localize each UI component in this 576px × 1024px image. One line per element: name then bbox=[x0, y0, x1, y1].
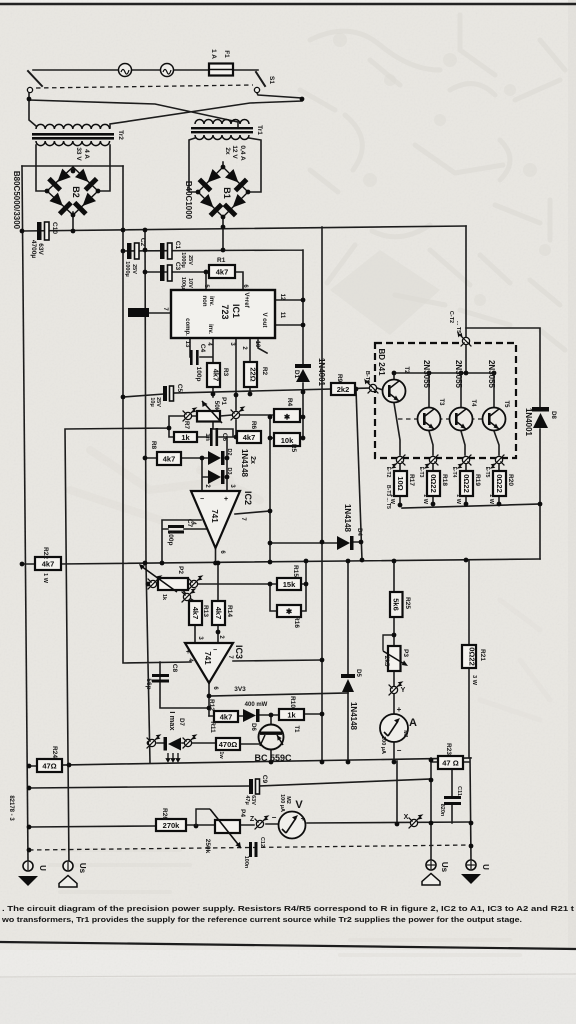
svg-text:T4: T4 bbox=[470, 399, 476, 407]
svg-text:4k7: 4k7 bbox=[212, 369, 221, 382]
svg-text:10µ: 10µ bbox=[149, 397, 155, 406]
svg-text:R10: R10 bbox=[289, 696, 296, 708]
svg-text:D7: D7 bbox=[178, 718, 184, 726]
svg-text:T5: T5 bbox=[503, 400, 509, 408]
svg-text:C10: C10 bbox=[51, 222, 58, 234]
svg-text:T1: T1 bbox=[293, 725, 299, 733]
svg-text:1 W: 1 W bbox=[455, 494, 461, 505]
svg-text:+: + bbox=[301, 814, 306, 823]
svg-text:50k: 50k bbox=[213, 401, 220, 412]
svg-text:25V: 25V bbox=[187, 255, 193, 265]
svg-text:inv.: inv. bbox=[208, 296, 214, 306]
svg-text:+: + bbox=[224, 496, 228, 503]
svg-text:4 A: 4 A bbox=[83, 149, 90, 159]
svg-text:inv.: inv. bbox=[207, 324, 213, 334]
svg-text:D2: D2 bbox=[226, 448, 232, 455]
svg-text:4700µ: 4700µ bbox=[30, 240, 37, 258]
svg-text:10: 10 bbox=[254, 341, 260, 348]
svg-text:100 µA: 100 µA bbox=[380, 736, 386, 754]
svg-text:82178 - 3: 82178 - 3 bbox=[8, 795, 14, 821]
svg-text:U: U bbox=[38, 865, 47, 871]
svg-text:E-T5: E-T5 bbox=[484, 467, 490, 478]
svg-text:33 V: 33 V bbox=[75, 147, 82, 161]
svg-text:741: 741 bbox=[210, 509, 219, 523]
svg-text:D5: D5 bbox=[355, 669, 361, 677]
svg-text:V+ref: V+ref bbox=[243, 292, 249, 308]
svg-text:11: 11 bbox=[279, 312, 285, 319]
svg-text:−: − bbox=[213, 647, 217, 654]
svg-text:1 W: 1 W bbox=[422, 494, 428, 505]
svg-text:✱: ✱ bbox=[286, 607, 293, 616]
svg-text:Tr1: Tr1 bbox=[256, 125, 263, 135]
svg-text:R16: R16 bbox=[293, 616, 300, 628]
svg-text:400 mW: 400 mW bbox=[245, 702, 268, 708]
svg-text:F1: F1 bbox=[223, 50, 230, 58]
svg-text:1N4001: 1N4001 bbox=[317, 358, 326, 387]
svg-text:1 W: 1 W bbox=[389, 494, 395, 505]
svg-text:4k7: 4k7 bbox=[163, 455, 176, 464]
svg-text:wo transformers, Tr1 provides: wo transformers, Tr1 provides the supply… bbox=[1, 915, 522, 924]
svg-text:IC2: IC2 bbox=[243, 491, 253, 505]
svg-text:0,4 A: 0,4 A bbox=[239, 145, 246, 161]
svg-text:5k6: 5k6 bbox=[392, 598, 401, 611]
svg-text:1N4148: 1N4148 bbox=[240, 449, 249, 478]
svg-text:R7: R7 bbox=[183, 421, 190, 430]
svg-text:C5: C5 bbox=[176, 384, 183, 393]
svg-text:I max: I max bbox=[168, 711, 177, 731]
svg-text:R6: R6 bbox=[250, 421, 257, 430]
svg-text:4k7: 4k7 bbox=[214, 607, 223, 620]
svg-text:47 Ω: 47 Ω bbox=[442, 759, 458, 768]
svg-text:R13: R13 bbox=[202, 605, 209, 617]
svg-text:C-T2: C-T2 bbox=[448, 311, 454, 323]
svg-text:R8: R8 bbox=[150, 441, 157, 450]
svg-text:R18: R18 bbox=[441, 474, 448, 486]
svg-text:470Ω: 470Ω bbox=[219, 740, 238, 749]
svg-text:1000µ: 1000µ bbox=[180, 252, 186, 267]
svg-text:820n: 820n bbox=[439, 804, 445, 817]
svg-text:Z: Z bbox=[250, 816, 255, 823]
svg-text:R12: R12 bbox=[208, 699, 215, 711]
svg-text:C11: C11 bbox=[456, 786, 462, 796]
svg-text:non: non bbox=[201, 296, 207, 307]
svg-text:P1: P1 bbox=[220, 397, 227, 405]
svg-text:R21: R21 bbox=[479, 649, 486, 661]
svg-text:100p: 100p bbox=[167, 531, 174, 546]
svg-text:1N4001: 1N4001 bbox=[524, 408, 533, 437]
svg-text:E-T2: E-T2 bbox=[385, 467, 391, 478]
svg-text:R2: R2 bbox=[261, 367, 268, 376]
svg-text:3 W: 3 W bbox=[471, 675, 477, 686]
svg-text:47Ω: 47Ω bbox=[42, 762, 56, 771]
svg-text:47µ: 47µ bbox=[244, 795, 250, 804]
svg-text:R22: R22 bbox=[42, 547, 49, 559]
svg-text:10V: 10V bbox=[187, 278, 193, 288]
svg-text:1N4148: 1N4148 bbox=[349, 702, 358, 731]
svg-text:2N3055: 2N3055 bbox=[487, 360, 496, 389]
svg-text:12 V: 12 V bbox=[231, 145, 238, 159]
svg-text:4k7: 4k7 bbox=[220, 713, 233, 722]
svg-text:1 W: 1 W bbox=[42, 573, 48, 584]
svg-text:+: + bbox=[397, 705, 402, 714]
svg-text:100µ: 100µ bbox=[180, 277, 186, 289]
svg-text:X: X bbox=[404, 814, 409, 821]
svg-text:T3: T3 bbox=[438, 398, 444, 406]
svg-text:P4: P4 bbox=[239, 809, 246, 817]
svg-text:100n: 100n bbox=[243, 856, 249, 869]
svg-text:1k: 1k bbox=[287, 711, 296, 720]
svg-text:1 A: 1 A bbox=[210, 49, 217, 59]
svg-text:10Ω: 10Ω bbox=[396, 476, 405, 490]
svg-text:R26: R26 bbox=[161, 808, 168, 820]
svg-text:63V: 63V bbox=[37, 243, 44, 255]
svg-text:22Ω: 22Ω bbox=[249, 367, 258, 381]
svg-text:R9: R9 bbox=[336, 374, 343, 383]
svg-text:2N3055: 2N3055 bbox=[454, 360, 463, 389]
svg-text:S1: S1 bbox=[268, 76, 275, 84]
svg-text:✱: ✱ bbox=[284, 413, 291, 422]
svg-text:Us: Us bbox=[440, 862, 449, 873]
svg-text:+: + bbox=[186, 649, 190, 656]
svg-text:2N3055: 2N3055 bbox=[422, 360, 431, 389]
svg-text:C4: C4 bbox=[199, 344, 206, 353]
svg-text:12: 12 bbox=[279, 294, 285, 301]
svg-text:E-T4: E-T4 bbox=[451, 467, 457, 478]
svg-text:1w: 1w bbox=[218, 751, 224, 759]
svg-text:25V: 25V bbox=[131, 264, 137, 274]
svg-text:2k5: 2k5 bbox=[383, 656, 390, 667]
svg-text:13: 13 bbox=[184, 341, 190, 348]
svg-text:. The circuit diagram of the p: . The circuit diagram of the precision p… bbox=[2, 904, 575, 913]
svg-text:100 µA: 100 µA bbox=[279, 794, 285, 812]
svg-text:R24: R24 bbox=[51, 746, 58, 758]
svg-text:C3: C3 bbox=[174, 262, 181, 271]
svg-text:R23: R23 bbox=[445, 743, 452, 755]
svg-text:V: V bbox=[295, 799, 303, 811]
svg-text:B2: B2 bbox=[71, 186, 81, 198]
svg-text:E-T3: E-T3 bbox=[418, 467, 424, 478]
svg-text:1000µ: 1000µ bbox=[124, 261, 130, 276]
svg-text:1n: 1n bbox=[204, 433, 211, 441]
svg-text:T2: T2 bbox=[403, 366, 409, 374]
svg-text:−: − bbox=[397, 746, 402, 755]
svg-text:100p: 100p bbox=[195, 367, 202, 382]
svg-text:4k7: 4k7 bbox=[243, 433, 256, 442]
svg-text:0Ω22: 0Ω22 bbox=[429, 474, 438, 493]
svg-text:R20: R20 bbox=[507, 474, 514, 486]
svg-text:IC3: IC3 bbox=[234, 645, 244, 659]
svg-text:3V3: 3V3 bbox=[234, 686, 246, 693]
svg-text:R25: R25 bbox=[404, 597, 411, 609]
svg-text:−: − bbox=[200, 496, 204, 503]
svg-text:−: − bbox=[272, 813, 277, 822]
svg-text:C7: C7 bbox=[186, 519, 193, 528]
svg-text:741: 741 bbox=[203, 651, 212, 665]
svg-text:P2: P2 bbox=[177, 566, 184, 574]
svg-text:15k: 15k bbox=[283, 580, 296, 589]
svg-text:P3: P3 bbox=[402, 649, 409, 657]
svg-text:M1: M1 bbox=[402, 730, 408, 738]
svg-text:56p: 56p bbox=[145, 678, 152, 689]
svg-text:D3: D3 bbox=[226, 467, 232, 474]
svg-text:Us: Us bbox=[78, 863, 87, 874]
svg-text:4k7: 4k7 bbox=[216, 268, 229, 277]
svg-text:0Ω22: 0Ω22 bbox=[462, 474, 471, 493]
svg-text:BD 241: BD 241 bbox=[377, 348, 386, 376]
svg-text:2k2: 2k2 bbox=[337, 385, 350, 394]
svg-text:R11: R11 bbox=[209, 721, 216, 733]
svg-text:0Ω22: 0Ω22 bbox=[468, 647, 477, 666]
svg-text:270k: 270k bbox=[163, 821, 181, 830]
svg-text:Tr2: Tr2 bbox=[117, 130, 124, 140]
svg-text:R1: R1 bbox=[217, 257, 226, 264]
svg-text:250k: 250k bbox=[204, 839, 211, 854]
svg-text:D4: D4 bbox=[356, 528, 362, 536]
svg-text:D6: D6 bbox=[250, 723, 256, 731]
svg-text:Y: Y bbox=[401, 687, 406, 694]
svg-text:C9: C9 bbox=[261, 775, 268, 784]
svg-text:C1: C1 bbox=[174, 241, 181, 250]
svg-text:BC 559C: BC 559C bbox=[254, 753, 292, 763]
svg-text:2x: 2x bbox=[249, 456, 256, 464]
svg-text:B80C5000/3300: B80C5000/3300 bbox=[12, 171, 21, 230]
svg-text:4k7: 4k7 bbox=[42, 560, 55, 569]
svg-text:V out: V out bbox=[261, 313, 267, 328]
svg-text:723: 723 bbox=[220, 304, 230, 319]
svg-text:R3: R3 bbox=[222, 368, 229, 377]
svg-text:B-T2: B-T2 bbox=[364, 371, 370, 383]
svg-text:4k7: 4k7 bbox=[191, 607, 200, 620]
svg-text:B40C1000: B40C1000 bbox=[184, 181, 193, 220]
svg-text:A: A bbox=[409, 717, 417, 729]
svg-text:D1: D1 bbox=[293, 370, 300, 379]
svg-text:R17: R17 bbox=[408, 474, 415, 486]
svg-text:D8: D8 bbox=[550, 411, 556, 419]
svg-text:1k: 1k bbox=[181, 433, 190, 442]
svg-text:R19: R19 bbox=[474, 474, 481, 486]
svg-text:1k: 1k bbox=[161, 594, 167, 601]
svg-text:2x: 2x bbox=[224, 147, 231, 155]
svg-text:25V: 25V bbox=[155, 397, 161, 407]
svg-text:C6: C6 bbox=[221, 433, 228, 442]
svg-text:B1: B1 bbox=[222, 187, 232, 199]
svg-text:R4: R4 bbox=[286, 398, 293, 407]
svg-text:0Ω22: 0Ω22 bbox=[495, 474, 504, 493]
svg-text:1 W: 1 W bbox=[488, 494, 494, 505]
svg-text:C2: C2 bbox=[139, 238, 146, 247]
svg-text:C12: C12 bbox=[259, 837, 265, 847]
svg-text:1N4148: 1N4148 bbox=[343, 504, 352, 533]
svg-text:IC1: IC1 bbox=[231, 304, 241, 318]
svg-text:R15: R15 bbox=[292, 565, 299, 577]
svg-text:comp.: comp. bbox=[184, 318, 190, 336]
svg-text:63V: 63V bbox=[250, 795, 256, 805]
svg-text:R5: R5 bbox=[290, 444, 297, 453]
svg-text:R14: R14 bbox=[226, 605, 233, 617]
svg-text:... T5: ... T5 bbox=[455, 321, 461, 334]
svg-text:U: U bbox=[481, 864, 490, 870]
svg-text:C8: C8 bbox=[171, 664, 178, 673]
